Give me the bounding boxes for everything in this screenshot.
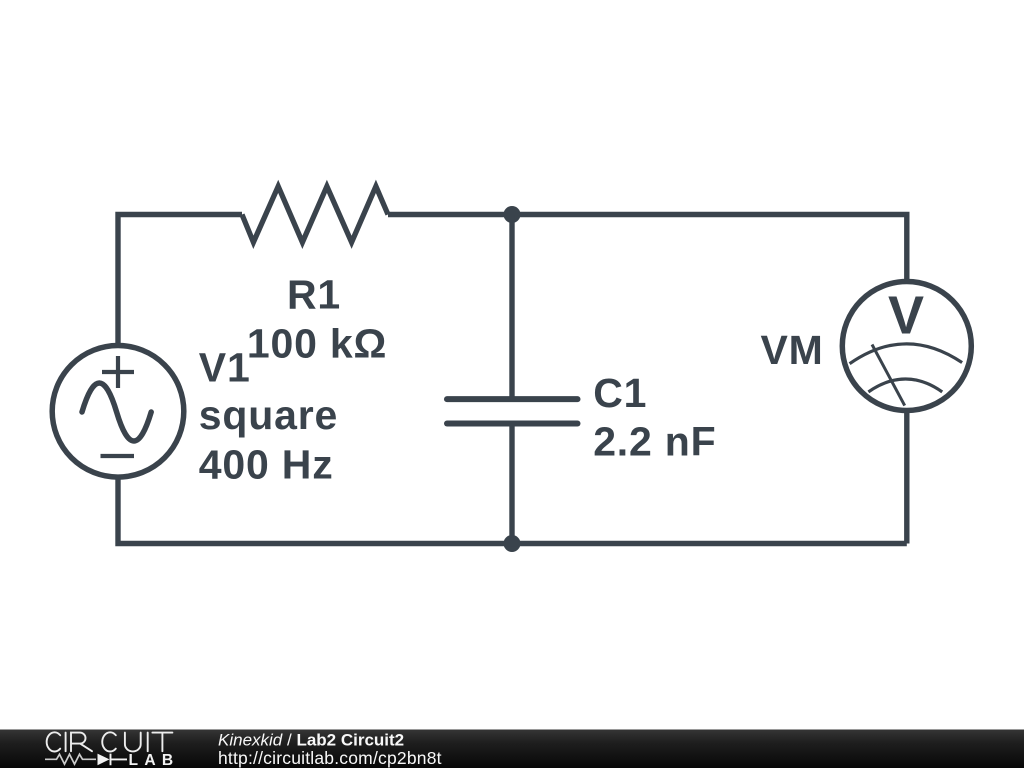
svg-text:V: V: [888, 286, 924, 346]
svg-text:2.2 nF: 2.2 nF: [593, 419, 716, 465]
logo resistor symbol: [45, 754, 96, 764]
svg-text:100 kΩ: 100 kΩ: [247, 321, 387, 367]
logo CIRCUIT wordmark: [47, 732, 173, 751]
svg-text:Kinexkid / Lab2 Circuit2: Kinexkid / Lab2 Circuit2: [218, 731, 404, 750]
wire top from R1 to voltmeter: [388, 215, 907, 280]
node top junction: [504, 206, 521, 223]
svg-text:R1: R1: [287, 271, 341, 317]
logo diode symbol: [98, 754, 110, 766]
voltmeter VM: [842, 282, 971, 411]
svg-text:400 Hz: 400 Hz: [199, 442, 334, 488]
voltage source V1: [52, 346, 184, 478]
resistor R1: [242, 186, 388, 242]
svg-text:VM: VM: [761, 327, 824, 373]
svg-text:http://circuitlab.com/cp2bn8t: http://circuitlab.com/cp2bn8t: [218, 748, 442, 768]
capacitor C1: [447, 399, 578, 423]
wire capacitor lower branch: [509, 424, 514, 544]
node bottom junction: [504, 535, 521, 552]
wire right from voltmeter to bottom rail: [904, 413, 909, 544]
wire top-left from V1 to R1: [118, 215, 242, 346]
svg-text:C1: C1: [593, 370, 647, 416]
svg-text:LAB: LAB: [129, 752, 180, 768]
wire bottom rail: [118, 477, 907, 544]
svg-text:square: square: [199, 392, 338, 438]
wire capacitor upper branch: [509, 215, 514, 400]
svg-text:V1: V1: [199, 344, 251, 390]
